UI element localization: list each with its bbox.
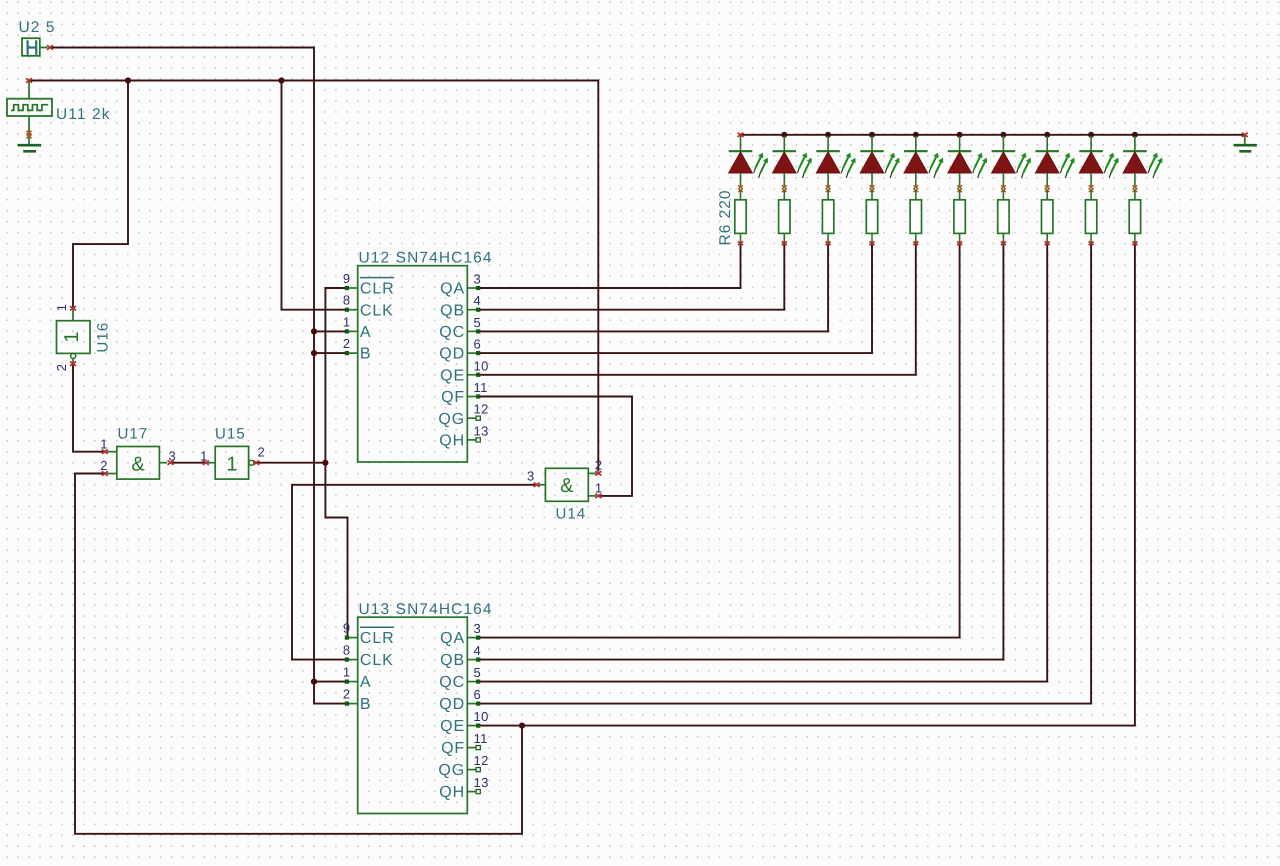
wire clock branch to U12 CLK [282,81,346,310]
wire U12 QB to LED 2 [479,245,785,310]
svg-text:13: 13 [474,423,489,438]
svg-text:8: 8 [343,293,351,308]
svg-text:QC: QC [439,674,465,691]
pin marker LED 4 cathode [870,185,875,188]
pin end [476,373,480,377]
svg-text:11: 11 [474,380,488,395]
svg-text:U13 SN74HC164: U13 SN74HC164 [359,601,493,618]
resistor R4 [866,190,877,243]
pin end [476,768,480,772]
pin stub U12 QA [467,287,479,289]
LED D10 [1123,136,1162,186]
LED D1 [729,136,768,186]
pin marker U15 pin 1 [203,461,209,465]
svg-text:U15: U15 [215,426,246,443]
junction LED rail / LED 9 [1088,132,1094,138]
pin end [345,680,349,684]
svg-text:5: 5 [474,315,482,330]
junction U15 out / U12 CLR [322,460,328,466]
pin marker LED 2 cathode [782,185,787,188]
pin marker LED 10 cathode [1133,185,1138,188]
junction LED rail / LED 4 [869,132,875,138]
pin stub ground right [1244,135,1246,145]
pin stub U12 QC [467,330,479,332]
pin marker resistor R8 top [1045,189,1050,192]
pin marker LED 1 cathode [738,185,743,188]
pin stub U12 CLK [346,309,358,311]
svg-text:1: 1 [343,314,351,329]
junction clock bus / U12 CLK branch [278,77,284,83]
pin stub U13 CLR [346,637,358,639]
wire clock branch down to U16 pin 1 [73,81,128,308]
svg-text:9: 9 [343,621,351,636]
pin stub U13 QC [467,681,479,683]
clock generator U11 [7,99,52,116]
svg-text:QA: QA [440,630,465,647]
svg-text:11: 11 [474,731,488,746]
pin stub U13 QF [467,747,479,749]
svg-text:QE: QE [440,718,465,735]
resistor R5 [910,190,921,243]
wire U13 QB to LED 7 [479,245,1004,660]
CLR overline [360,626,394,628]
pin end [476,636,480,640]
wire U12 QF to U14 pin 1 [479,397,632,496]
pin marker LED 3 cathode [826,185,831,188]
resistor R2 [779,190,790,243]
svg-text:R6 220: R6 220 [717,190,734,246]
LED D6 [948,136,987,186]
pin marker rail left / U11 top [26,78,32,82]
wire U13 QC to LED 8 [479,245,1047,682]
pin marker resistor R1 top [738,189,743,192]
pin marker resistor R6 bottom [957,242,962,246]
pin end [345,702,349,706]
resistor R7 [998,190,1009,243]
pin marker U15 pin 2 [253,461,259,465]
pin marker resistor R4 bottom [870,242,875,246]
pin marker U17 pin 2 [102,471,108,475]
pin stub U12 QH [467,439,479,441]
shift register U13 SN74HC164 [358,617,468,813]
wire U12 QC to LED 3 [479,245,828,332]
resistor R1 [735,190,746,243]
pin stub U12 QD [467,352,479,354]
pin marker resistor R2 bottom [782,242,787,246]
svg-text:2: 2 [595,457,603,472]
pin marker resistor R6 top [957,189,962,192]
svg-text:3: 3 [474,621,482,636]
svg-text:U2 5: U2 5 [19,19,56,36]
LED D5 [904,136,943,186]
pin marker U2 output [47,45,53,49]
pin stub U12 CLR [346,287,358,289]
svg-text:12: 12 [474,753,489,768]
pin stub U12 QB [467,309,479,311]
wire U12 QE to LED 5 [479,245,916,375]
wire U17 pin 2 feedback loop from U13 QE [75,474,522,834]
svg-text:QD: QD [439,696,465,713]
pin stub U12 QG [467,417,479,419]
pin end [345,308,349,312]
svg-text:B: B [360,346,372,363]
wire U13 QA to LED 6 [479,245,960,638]
junction LED rail / LED 8 [1044,132,1050,138]
pin stub U13 B [346,703,358,705]
pin end [476,394,480,398]
pin stub U12 QE [467,374,479,376]
resistor R6 [954,190,965,243]
LED D9 [1079,136,1118,186]
pin marker resistor R7 bottom [1001,242,1006,246]
svg-text:6: 6 [474,687,482,702]
pin stub U17 pin 2 [107,473,117,475]
pin stub U12 A [346,330,358,332]
svg-text:QF: QF [441,740,465,757]
svg-text:QD: QD [439,346,465,363]
pin stub U13 CLK [346,659,358,661]
svg-text:QA: QA [440,281,465,298]
svg-text:8: 8 [343,643,351,658]
LED D4 [860,136,899,186]
pin stub U13 QE [467,725,479,727]
wire branch to U13 pin A [314,681,345,683]
resistor R8 [1042,190,1053,243]
pin marker LED 7 cathode [1001,185,1006,188]
svg-text:QE: QE [440,367,465,384]
LED D7 [992,136,1031,186]
svg-text:U11 2k: U11 2k [56,106,111,123]
shift register U12 SN74HC164 [358,266,468,462]
junction LED rail / LED 7 [1000,132,1006,138]
pin stub U11 bottom to ground [28,116,30,145]
svg-text:1: 1 [343,665,351,680]
svg-text:&: & [131,453,145,475]
svg-text:12: 12 [474,402,489,417]
pin end [476,286,480,290]
svg-text:CLR: CLR [360,281,395,298]
junction data feed / U13 A [311,679,317,685]
junction LED rail / LED 6 [957,132,963,138]
pin end [476,329,480,333]
pin end [476,746,480,750]
pin marker resistor R3 bottom [826,242,831,246]
svg-text:4: 4 [474,293,482,308]
junction LED rail / LED 3 [825,132,831,138]
junction U13 QE / feedback loop [519,723,525,729]
pin marker U14 pin 3 [534,483,540,487]
wire U12 QA to LED 1 [479,245,741,289]
svg-text:1: 1 [100,436,108,451]
pin end [476,416,480,420]
pin stub U2 output [40,47,48,49]
resistor R3 [822,190,833,243]
logic source U2 (constant high) [22,38,40,56]
svg-text:QH: QH [439,433,465,450]
svg-text:U16: U16 [95,322,112,353]
junction data feed / U12 A [311,328,317,334]
svg-text:QF: QF [441,389,465,406]
svg-text:QB: QB [440,652,465,669]
LED D2 [773,136,812,186]
svg-text:2: 2 [343,336,351,351]
pin stub U13 QD [467,703,479,705]
pin end [476,724,480,728]
pin marker U11 bottom a [27,131,32,135]
pin marker U16 pin 1 [70,306,76,310]
pin stub U11 top [28,81,30,99]
pin marker resistor R10 bottom [1132,242,1137,246]
svg-text:CLK: CLK [360,652,394,669]
svg-text:CLR: CLR [360,630,395,647]
wire U12 CLR to U13 CLR [325,288,347,636]
pin end [476,658,480,662]
pin end [345,351,349,355]
svg-text:U17: U17 [118,426,149,443]
pin end [476,438,480,442]
svg-text:QC: QC [439,324,465,341]
pin stub U13 QA [467,637,479,639]
resistor R9 [1085,190,1096,243]
svg-text:CLK: CLK [360,302,394,319]
pin marker LED 9 cathode [1089,185,1094,188]
wire U16 pin 2 to U17 pin 1 [73,365,107,452]
resistor R10 [1129,190,1140,243]
wire clock bus from U11 to U14 pin 2 [29,81,598,472]
svg-text:9: 9 [343,271,351,286]
pin marker resistor R5 bottom [913,242,918,246]
pin end [476,790,480,794]
svg-text:A: A [360,674,372,691]
pin marker resistor R3 top [826,189,831,192]
AND gate U14 [545,468,588,501]
pin marker U11 bottom b [27,135,32,139]
pin stub U16 output [72,359,74,364]
pin marker rail right end [1242,133,1248,137]
svg-text:2: 2 [343,687,351,702]
pin stub U12 B [346,352,358,354]
pin marker resistor R1 bottom [738,242,743,246]
pin end [476,702,480,706]
svg-text:1: 1 [61,331,83,342]
pin marker resistor R8 bottom [1045,242,1050,246]
pin marker resistor R9 top [1089,189,1094,192]
svg-text:2: 2 [54,363,69,371]
wire U2 output to shift register data A/B feed [49,48,345,704]
pin stub U16 input [72,309,74,321]
pin marker resistor R5 top [913,189,918,192]
svg-text:10: 10 [474,709,489,724]
pin marker U14 pin 1 [595,494,601,498]
pin marker LED 5 cathode [913,185,918,188]
pin stub U17 pin 3 [159,462,167,464]
svg-text:13: 13 [474,775,489,790]
svg-text:QG: QG [438,762,465,779]
wire U17 output to U15 input [169,462,206,464]
pin marker U17 pin 1 [102,450,108,454]
svg-text:2: 2 [100,458,108,473]
svg-text:3: 3 [169,448,177,463]
junction LED rail / LED 2 [781,132,787,138]
ground symbol right [1234,144,1257,147]
svg-text:6: 6 [474,337,482,352]
pin marker U16 pin 2 [70,361,76,365]
svg-text:QG: QG [438,411,465,428]
LED D3 [816,136,855,186]
pin stub U12 QF [467,396,479,398]
svg-text:B: B [360,696,372,713]
wire U13 QD to LED 9 [479,245,1091,704]
inverter U15 [215,446,254,479]
svg-text:5: 5 [474,665,482,680]
pin end [476,680,480,684]
junction LED rail / LED 10 [1132,132,1138,138]
svg-text:QB: QB [440,302,465,319]
pin marker resistor R7 top [1001,189,1006,192]
pin marker resistor R2 top [782,189,787,192]
junction LED rail / LED 5 [913,132,919,138]
junction clock bus / U16 branch [125,77,131,83]
pin stub U14 pin 3 [539,484,546,486]
pin stub U17 pin 1 [107,451,117,453]
pin end [476,351,480,355]
svg-text:4: 4 [474,643,482,658]
pin stub U13 QB [467,659,479,661]
pin marker U17 pin 3 [168,461,174,465]
LED D8 [1035,136,1074,186]
svg-text:1: 1 [54,303,69,311]
svg-text:1: 1 [226,453,237,475]
pin end [345,329,349,333]
pin marker LED 8 cathode [1045,185,1050,188]
CLR overline [360,277,394,279]
svg-text:1: 1 [595,480,603,495]
svg-text:1: 1 [200,448,208,463]
wire U13 QE to LED 10 [479,245,1135,726]
pin marker rail left end at LED 1 [738,133,744,137]
pin marker resistor R4 top [870,189,875,192]
AND gate U17 [117,447,160,480]
pin stub U15 pin 1 [208,462,215,464]
pin stub U13 A [346,681,358,683]
pin marker resistor R10 top [1133,189,1138,192]
pin stub U14 pin 2 [588,472,596,474]
ground symbol left [18,144,42,147]
pin marker resistor R9 bottom [1089,242,1094,246]
svg-text:3: 3 [474,272,482,287]
pin marker LED 6 cathode [957,185,962,188]
svg-text:QH: QH [439,784,465,801]
svg-text:&: & [560,475,574,497]
wire branch to U12 pin B [314,352,345,354]
svg-text:2: 2 [258,444,266,459]
pin stub U13 QH [467,791,479,793]
inverter U16 [57,321,91,359]
wire U15 output to CLR node [255,462,326,464]
pin stub U14 pin 1 [588,495,596,497]
wire branch to U12 pin A [314,330,345,332]
svg-text:3: 3 [527,469,535,484]
svg-text:U12 SN74HC164: U12 SN74HC164 [359,250,493,267]
wire U12 QD to LED 4 [479,245,872,354]
junction data feed / U12 B [311,350,317,356]
svg-text:10: 10 [474,358,489,373]
pin marker U14 pin 2 [595,471,601,475]
wire U14 output to U13 CLK [292,485,539,660]
wire LED anode rail [741,134,1245,136]
pin end [476,308,480,312]
pin stub U13 QG [467,769,479,771]
svg-text:U14: U14 [556,506,587,523]
pin end [345,286,349,290]
pin end [345,658,349,662]
svg-text:A: A [360,324,372,341]
pin end [345,636,349,640]
